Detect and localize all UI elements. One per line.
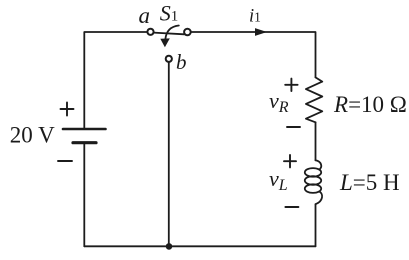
- switch contact a: [147, 29, 153, 35]
- battery plate long (positive): [63, 128, 106, 131]
- svg-text:S1: S1: [160, 1, 179, 26]
- inductor L loop 3: [305, 184, 321, 193]
- v_R minus sign: [287, 126, 300, 128]
- battery plus sign: [61, 103, 74, 116]
- svg-text:i1: i1: [249, 6, 261, 26]
- svg-text:L=5 H: L=5 H: [339, 170, 400, 195]
- v_L minus sign: [285, 206, 298, 208]
- battery minus sign: [58, 160, 72, 162]
- switch arc arrow shaft: [165, 26, 178, 40]
- v_L plus sign: [284, 155, 296, 167]
- wire left-bottom segment: [83, 143, 85, 247]
- battery plate short (negative): [73, 141, 96, 144]
- svg-text:b: b: [176, 50, 187, 74]
- switch motion arrowhead: [160, 38, 170, 47]
- svg-text:vR: vR: [269, 88, 289, 116]
- wire right between resistor and inductor: [315, 122, 317, 160]
- inductor L top hook: [316, 160, 322, 169]
- svg-text:a: a: [139, 3, 151, 28]
- v_R plus sign: [285, 79, 297, 91]
- wire right below inductor: [315, 204, 317, 246]
- junction dot at bottom node: [166, 243, 173, 250]
- inductor L loop 2: [305, 176, 321, 185]
- wire top-right segment: [191, 32, 316, 77]
- switch contact b: [166, 56, 172, 62]
- svg-text:vL: vL: [269, 166, 288, 194]
- svg-text:20 V: 20 V: [10, 123, 55, 148]
- switch blade: [154, 33, 185, 35]
- inductor L loop 1: [305, 168, 321, 177]
- wire top-left segment: [84, 32, 147, 129]
- wire middle from node b to bottom: [168, 62, 170, 246]
- svg-text:R=10 Ω: R=10 Ω: [333, 92, 407, 117]
- resistor R zigzag: [306, 77, 322, 122]
- inductor L bottom hook: [316, 191, 322, 204]
- switch pivot contact: [184, 29, 191, 36]
- current i1 arrowhead: [255, 28, 267, 36]
- wire bottom segment: [84, 245, 315, 247]
